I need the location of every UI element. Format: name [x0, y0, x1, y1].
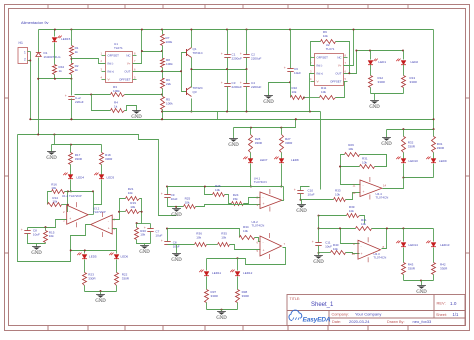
- svg-text:11: 11: [353, 184, 356, 188]
- svg-text:GND: GND: [381, 142, 392, 147]
- svg-text:10k: 10k: [362, 160, 367, 164]
- svg-text:10k: 10k: [51, 186, 56, 190]
- svg-text:2020-03-24: 2020-03-24: [349, 319, 370, 324]
- svg-text:LED3: LED3: [107, 175, 115, 179]
- svg-text:LED6: LED6: [121, 255, 129, 259]
- svg-text:12: 12: [353, 191, 357, 195]
- svg-text:V-: V-: [108, 78, 111, 82]
- svg-text:IN(+): IN(+): [108, 70, 115, 74]
- svg-text:330R: 330R: [408, 266, 416, 270]
- svg-text:LED14: LED14: [409, 243, 419, 247]
- svg-text:LED11: LED11: [212, 271, 221, 275]
- svg-text:2: 2: [24, 58, 26, 62]
- svg-text:GND: GND: [131, 115, 142, 120]
- svg-text:TL074CN: TL074CN: [252, 224, 265, 228]
- svg-text:-: -: [361, 244, 362, 248]
- svg-text:OUT: OUT: [335, 72, 341, 76]
- svg-text:330R: 330R: [378, 80, 386, 84]
- svg-text:1k: 1k: [75, 50, 79, 54]
- svg-text:330R: 330R: [75, 157, 83, 161]
- svg-text:OFFSET: OFFSET: [108, 54, 120, 58]
- svg-text:Q3: Q3: [193, 90, 197, 94]
- svg-text:LED13: LED13: [440, 243, 450, 247]
- svg-text:+: +: [240, 52, 242, 56]
- svg-text:10k: 10k: [140, 233, 145, 237]
- svg-text:Sheet_1: Sheet_1: [311, 302, 334, 308]
- svg-text:1k: 1k: [75, 68, 79, 72]
- svg-text:V+: V+: [127, 62, 131, 66]
- svg-text:H1: H1: [19, 41, 23, 45]
- svg-text:GND: GND: [216, 316, 227, 321]
- svg-text:330R: 330R: [285, 141, 293, 145]
- svg-text:220uF: 220uF: [75, 100, 84, 104]
- svg-text:330R: 330R: [437, 146, 445, 150]
- svg-text:10uF: 10uF: [308, 192, 315, 196]
- svg-text:GND: GND: [46, 156, 57, 161]
- svg-text:2200uF: 2200uF: [251, 56, 261, 60]
- svg-text:2200uF: 2200uF: [232, 56, 242, 60]
- svg-text:TL074CN: TL074CN: [376, 196, 389, 200]
- svg-text:100k: 100k: [113, 89, 120, 93]
- svg-text:V+: V+: [338, 64, 342, 68]
- svg-text:GND: GND: [139, 250, 150, 255]
- svg-text:10k: 10k: [292, 90, 297, 94]
- svg-text:10uF: 10uF: [155, 233, 162, 237]
- svg-text:1: 1: [24, 51, 26, 55]
- svg-text:10k: 10k: [333, 247, 338, 251]
- svg-text:GND: GND: [171, 258, 182, 263]
- svg-text:+: +: [361, 252, 363, 256]
- svg-text:330R: 330R: [105, 157, 113, 161]
- svg-text:330R: 330R: [440, 266, 448, 270]
- svg-text:14: 14: [383, 184, 387, 188]
- svg-text:+: +: [144, 226, 146, 230]
- svg-text:neo_fox33: neo_fox33: [413, 319, 432, 324]
- svg-text:LED8: LED8: [291, 158, 299, 162]
- svg-text:LED9: LED9: [439, 159, 447, 163]
- svg-text:NC: NC: [126, 54, 130, 58]
- svg-text:1k: 1k: [59, 69, 63, 73]
- svg-text:-: -: [263, 195, 264, 199]
- svg-text:TL072CP: TL072CP: [93, 210, 106, 214]
- svg-text:LED4: LED4: [76, 175, 84, 179]
- svg-text:1k: 1k: [114, 104, 118, 108]
- svg-text:LED1: LED1: [378, 60, 386, 64]
- svg-text:330R: 330R: [410, 80, 418, 84]
- svg-text:Sheet:: Sheet:: [436, 313, 447, 317]
- svg-text:OFFSET: OFFSET: [330, 80, 342, 84]
- svg-text:330R: 330R: [255, 141, 263, 145]
- svg-text:10k: 10k: [321, 90, 326, 94]
- svg-text:V-: V-: [317, 80, 320, 84]
- svg-text:10k: 10k: [349, 209, 354, 213]
- svg-text:IN(+): IN(+): [317, 72, 324, 76]
- svg-text:IN(-): IN(-): [317, 64, 323, 68]
- svg-text:LED12: LED12: [243, 271, 253, 275]
- svg-text:Date:: Date:: [332, 320, 341, 324]
- svg-text:100k: 100k: [166, 40, 173, 44]
- svg-text:1/1: 1/1: [453, 312, 459, 317]
- svg-text:10k: 10k: [243, 229, 248, 233]
- svg-text:LED10: LED10: [409, 159, 419, 163]
- svg-text:10k: 10k: [130, 205, 135, 209]
- svg-text:LED5: LED5: [89, 255, 97, 259]
- svg-text:+: +: [69, 217, 71, 221]
- svg-text:Alimentacion 9v: Alimentacion 9v: [21, 20, 49, 25]
- svg-text:Drawn By:: Drawn By:: [387, 320, 405, 324]
- svg-text:1.0: 1.0: [450, 301, 457, 306]
- svg-text:330R: 330R: [242, 294, 250, 298]
- svg-text:+: +: [263, 248, 265, 252]
- svg-text:TL074CN: TL074CN: [254, 180, 267, 184]
- svg-text:1N4007RLG: 1N4007RLG: [44, 55, 62, 59]
- svg-text:IN(-): IN(-): [108, 62, 114, 66]
- svg-text:GND: GND: [171, 213, 182, 218]
- svg-text:REV:: REV:: [437, 301, 446, 306]
- svg-text:330R: 330R: [408, 144, 416, 148]
- svg-text:EasyEDA: EasyEDA: [303, 316, 331, 323]
- svg-text:330R: 330R: [122, 276, 130, 280]
- svg-text:10k: 10k: [196, 235, 201, 239]
- svg-text:+: +: [263, 202, 265, 206]
- svg-text:+: +: [108, 227, 110, 231]
- svg-text:OUT: OUT: [124, 70, 130, 74]
- svg-text:330R: 330R: [211, 294, 219, 298]
- svg-text:100k: 100k: [166, 62, 173, 66]
- svg-text:+: +: [161, 192, 163, 196]
- svg-text:10uF: 10uF: [171, 197, 178, 201]
- svg-text:10uF: 10uF: [325, 244, 332, 248]
- svg-text:2200uF: 2200uF: [251, 85, 261, 89]
- svg-text:-: -: [263, 240, 264, 244]
- svg-text:LED2: LED2: [411, 60, 419, 64]
- svg-text:Your Company: Your Company: [355, 312, 381, 317]
- svg-text:-: -: [69, 209, 70, 213]
- svg-text:+: +: [221, 52, 223, 56]
- svg-text:TL074CN: TL074CN: [373, 256, 386, 260]
- svg-text:TIP41C: TIP41C: [193, 51, 204, 55]
- svg-text:+: +: [65, 94, 67, 98]
- svg-text:U1.2 TL072CP: U1.2 TL072CP: [62, 194, 82, 198]
- svg-text:LED15: LED15: [61, 37, 71, 41]
- svg-text:+: +: [221, 81, 223, 85]
- svg-text:10k: 10k: [335, 192, 340, 196]
- svg-text:10k: 10k: [361, 222, 366, 226]
- svg-text:10k: 10k: [323, 34, 328, 38]
- svg-text:+: +: [240, 81, 242, 85]
- svg-text:10k: 10k: [128, 191, 133, 195]
- svg-text:-: -: [108, 219, 109, 223]
- svg-text:10uF: 10uF: [294, 71, 301, 75]
- svg-text:10uF: 10uF: [33, 232, 40, 236]
- svg-text:OFFSET: OFFSET: [317, 56, 329, 60]
- svg-text:100k: 100k: [166, 101, 173, 105]
- svg-text:GND: GND: [31, 251, 42, 256]
- svg-text:Company:: Company:: [332, 313, 349, 317]
- svg-text:2200uF: 2200uF: [232, 85, 242, 89]
- svg-text:GND: GND: [95, 299, 106, 304]
- svg-text:OFFSET: OFFSET: [119, 78, 131, 82]
- svg-text:GND: GND: [369, 105, 380, 110]
- svg-text:+: +: [363, 190, 365, 194]
- svg-text:330R: 330R: [88, 276, 96, 280]
- svg-text:NC: NC: [337, 56, 341, 60]
- svg-text:15k: 15k: [233, 197, 238, 201]
- svg-text:10k: 10k: [348, 147, 353, 151]
- svg-text:10: 10: [352, 252, 356, 256]
- svg-text:+: +: [21, 228, 23, 232]
- svg-text:22k: 22k: [166, 82, 171, 86]
- svg-text:+: +: [161, 239, 163, 243]
- svg-text:10k: 10k: [52, 199, 57, 203]
- svg-text:GND: GND: [228, 143, 239, 148]
- svg-text:GND: GND: [313, 260, 324, 265]
- svg-text:GND: GND: [296, 209, 307, 214]
- svg-text:GND: GND: [263, 100, 274, 105]
- svg-text:10k: 10k: [215, 188, 220, 192]
- svg-text:10k: 10k: [49, 234, 54, 238]
- svg-text:TITLE:: TITLE:: [290, 297, 301, 301]
- svg-text:TL071: TL071: [114, 46, 123, 50]
- svg-text:-: -: [363, 183, 364, 187]
- svg-text:10k: 10k: [221, 235, 226, 239]
- svg-text:TL071: TL071: [326, 47, 335, 51]
- svg-text:LED7: LED7: [260, 158, 268, 162]
- svg-text:+: +: [312, 240, 314, 244]
- svg-text:+: +: [284, 66, 286, 70]
- svg-text:10k: 10k: [185, 200, 190, 204]
- svg-text:+: +: [294, 188, 296, 192]
